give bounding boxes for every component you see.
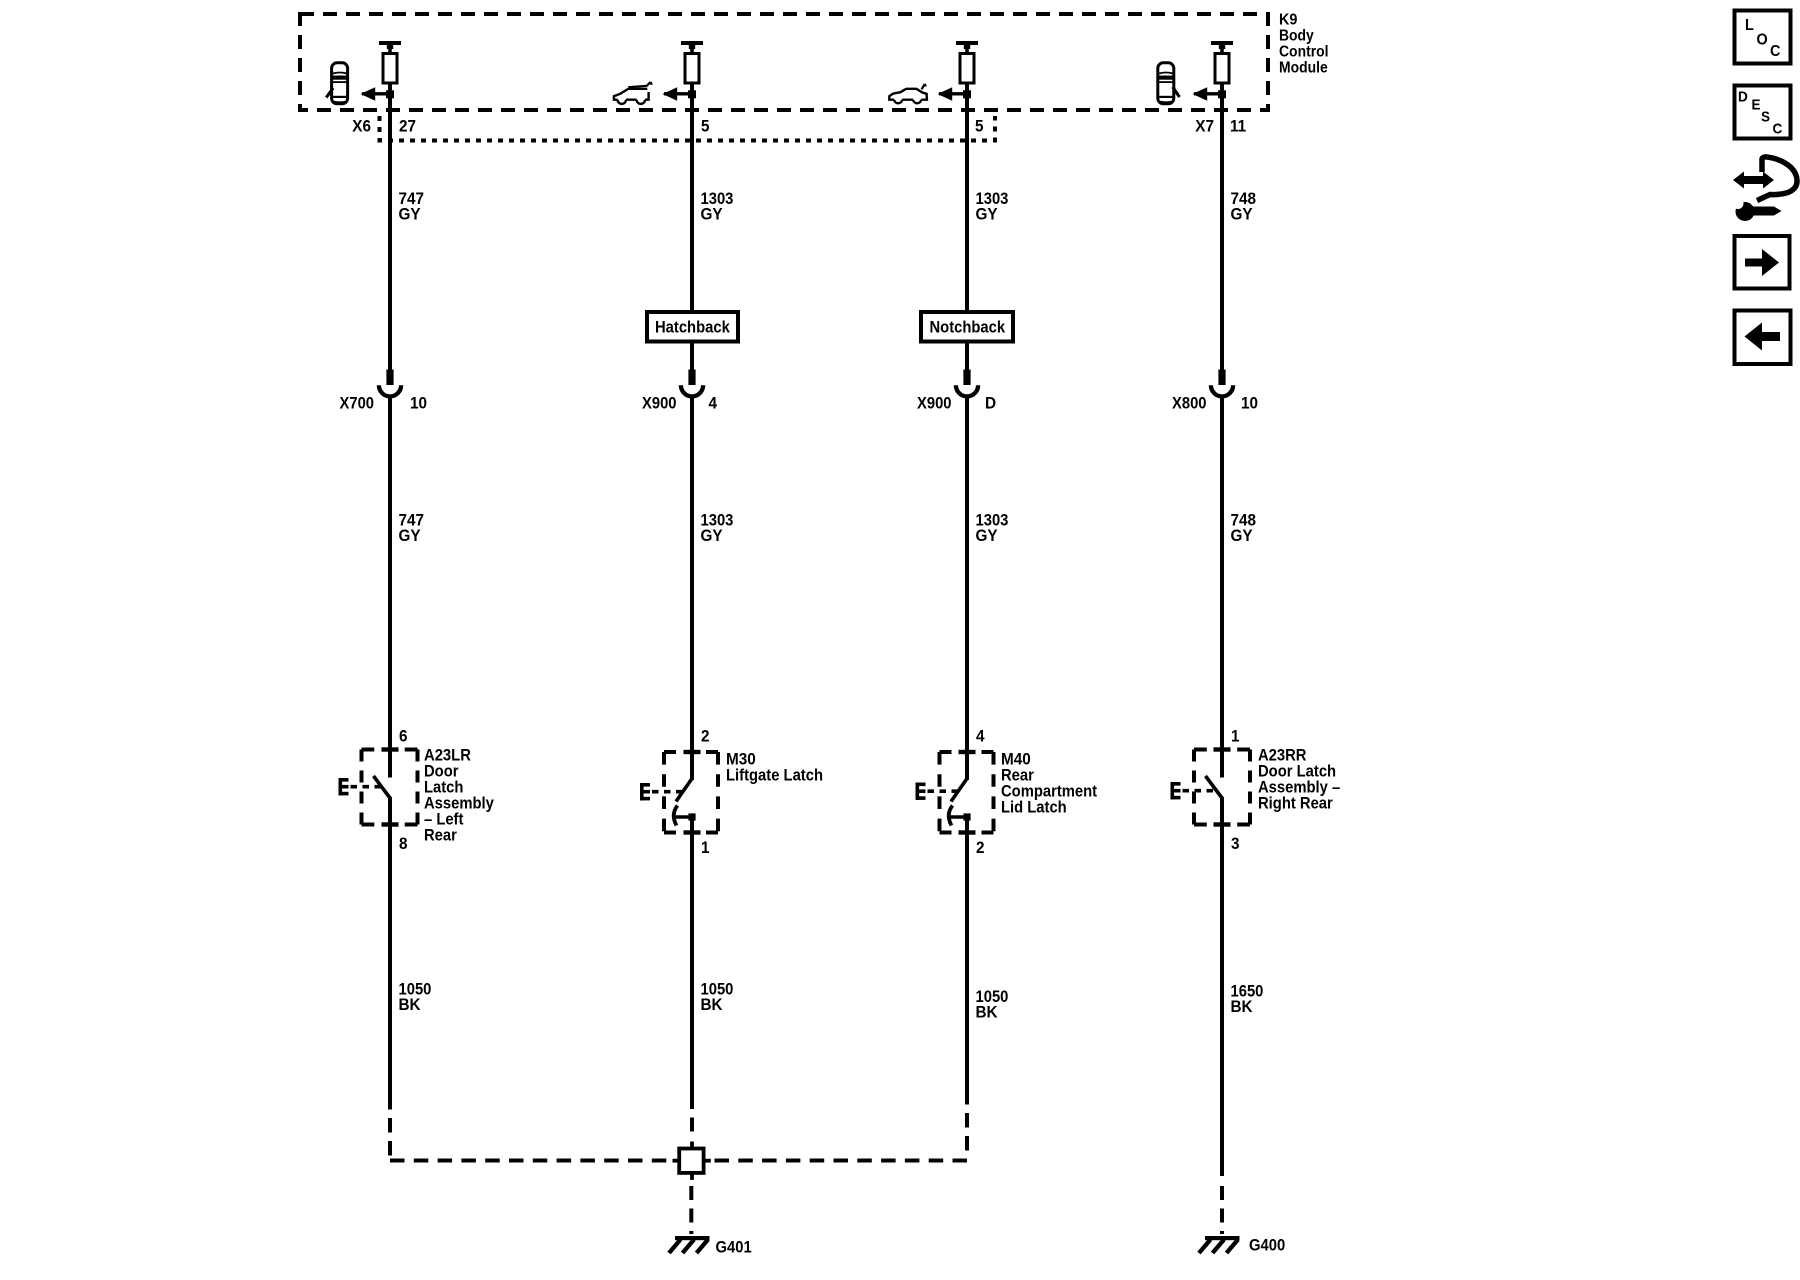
svg-text:3: 3 <box>1231 834 1240 853</box>
latch switch A23RR (blade) <box>1206 750 1223 825</box>
svg-text:BK: BK <box>976 1003 999 1022</box>
wire 1 from inline connector to latch <box>388 396 392 750</box>
latch name label M30 <box>726 750 823 785</box>
label K9 Body Control Module <box>1279 12 1329 77</box>
svg-text:GY: GY <box>1231 526 1254 545</box>
latch name label A23RR <box>1258 746 1340 813</box>
BCM connector label X7 pin 11 <box>1195 117 1246 136</box>
harness routing icon (double arrow, hook outline, wrench) <box>1733 157 1798 221</box>
wire 2 solid segment below latch <box>690 831 694 1095</box>
svg-text:X800: X800 <box>1172 394 1207 413</box>
latch switch A23LR (blade) <box>374 750 391 825</box>
svg-text:Liftgate Latch: Liftgate Latch <box>726 766 823 785</box>
svg-text:4: 4 <box>976 727 985 746</box>
driver 2 output arrow to icon <box>663 87 697 101</box>
svg-text:C: C <box>1773 121 1783 138</box>
latch M40 pin numbers 4/2 <box>976 727 985 858</box>
svg-text:X900: X900 <box>917 394 952 413</box>
inline connector labels X900 / D <box>917 394 996 413</box>
latch M30 pin numbers 2/1 <box>701 727 710 858</box>
latch name label A23LR <box>424 746 494 845</box>
inline connector labels X900 / 4 <box>642 394 717 413</box>
next-page arrow box <box>1735 236 1790 289</box>
svg-text:2: 2 <box>976 838 985 857</box>
ground label G401 <box>716 1238 752 1257</box>
ground symbol G401 <box>669 1236 710 1253</box>
svg-text:K9: K9 <box>1279 12 1297 29</box>
svg-text:L: L <box>1745 17 1754 34</box>
latch switch M30 (blade with latch hook) <box>674 752 696 833</box>
latch M40 pin ticks at box boundary <box>959 750 976 835</box>
svg-text:1: 1 <box>701 838 710 857</box>
wire 1 circuit label 747 GY (upper) <box>399 189 425 224</box>
wire 1 solid segment below latch <box>388 823 392 1095</box>
svg-text:X900: X900 <box>642 394 677 413</box>
svg-text:Body: Body <box>1279 28 1314 45</box>
svg-text:X7: X7 <box>1195 117 1214 136</box>
BCM output driver 1 (T-bar, coil box) <box>379 41 401 83</box>
svg-text:X6: X6 <box>352 117 371 136</box>
svg-text:GY: GY <box>399 526 422 545</box>
latch A23RR lever symbol (E) with linkage <box>1171 782 1215 799</box>
svg-text:GY: GY <box>701 526 724 545</box>
wire 1 circuit label 747 GY (lower) <box>399 511 425 546</box>
latch A23RR pin ticks at box boundary <box>1214 747 1231 826</box>
latch M30 pin ticks at box boundary <box>684 750 701 835</box>
latch M30 lever symbol (E) with linkage <box>640 783 684 800</box>
DESC info box <box>1735 86 1791 139</box>
wire 4 circuit label 748 GY (lower) <box>1231 511 1257 546</box>
wire 1 ground circuit label 1050 BK <box>399 980 432 1015</box>
svg-text:27: 27 <box>399 117 416 136</box>
BCM connector label X6 pin 27 <box>352 117 416 136</box>
BCM pin 5 label <box>975 117 984 136</box>
latch M30 dashed component box <box>664 752 718 833</box>
inline connector X900 pin D <box>956 370 978 397</box>
BCM output driver 2 (T-bar, coil box) <box>681 41 703 83</box>
notchback open trunk icon <box>889 84 927 103</box>
BCM K9 Body Control Module dashed box <box>300 14 1268 110</box>
BCM output driver 4 (T-bar, coil box) <box>1211 41 1233 83</box>
latch A23LR pin numbers 6/8 <box>399 727 408 854</box>
body style box Notchback <box>921 312 1013 342</box>
svg-text:GY: GY <box>976 205 999 224</box>
svg-text:6: 6 <box>399 727 408 746</box>
latch M40 dashed component box <box>940 752 994 833</box>
svg-text:GY: GY <box>399 205 422 224</box>
svg-text:5: 5 <box>975 117 984 136</box>
svg-text:10: 10 <box>1241 394 1258 413</box>
wire 3 ground circuit label 1050 BK <box>976 987 1009 1022</box>
svg-text:C: C <box>1770 43 1781 60</box>
wire 3 from body-style box to inline connector <box>965 342 969 374</box>
svg-text:BK: BK <box>399 995 422 1014</box>
svg-text:5: 5 <box>701 117 710 136</box>
svg-text:Lid Latch: Lid Latch <box>1001 798 1067 817</box>
svg-text:2: 2 <box>701 727 710 746</box>
svg-text:S: S <box>1761 109 1770 126</box>
svg-text:Notchback: Notchback <box>930 318 1006 337</box>
svg-text:GY: GY <box>1231 205 1254 224</box>
svg-text:E: E <box>1752 97 1761 114</box>
inline connector X900 pin 4 <box>681 370 703 397</box>
LOC info box <box>1735 11 1791 64</box>
svg-text:D: D <box>985 394 996 413</box>
wire 3 from driver to body-style box <box>965 83 969 312</box>
svg-text:O: O <box>1757 31 1768 48</box>
svg-text:10: 10 <box>410 394 427 413</box>
wire 2 from inline connector to latch <box>690 396 694 752</box>
car door icon (right rear, top view) <box>1158 63 1180 104</box>
hatchback open liftgate icon <box>614 82 652 104</box>
wire 3 circuit label 1303 GY (upper) <box>976 189 1009 224</box>
svg-text:11: 11 <box>1230 117 1246 136</box>
wire 2 dashed segment to splice <box>690 1095 694 1138</box>
latch A23LR pin ticks at box boundary <box>382 747 399 826</box>
svg-text:X700: X700 <box>340 394 375 413</box>
ground label G400 <box>1249 1236 1285 1255</box>
latch M40 lever symbol (E) with linkage <box>916 783 960 800</box>
latch A23RR dashed component box <box>1194 750 1250 825</box>
svg-text:G400: G400 <box>1249 1236 1285 1255</box>
inline connector X700 pin 10 <box>379 370 401 397</box>
BCM output driver 3 (T-bar, coil box) <box>956 41 978 83</box>
latch name label M40 <box>1001 750 1097 817</box>
latch switch M40 (blade with latch hook) <box>949 752 971 833</box>
car door icon (left rear, top view) <box>326 63 347 104</box>
svg-text:Module: Module <box>1279 60 1328 77</box>
wire 2 circuit label 1303 GY (upper) <box>701 189 734 224</box>
wire 4 circuit label 748 GY (upper) <box>1231 189 1257 224</box>
inline connector labels X700 / 10 <box>340 394 428 413</box>
wire 3 circuit label 1303 GY (lower) <box>976 511 1009 546</box>
wire 4 from driver to inline connector <box>1220 83 1224 373</box>
wire 2 from body-style box to inline connector <box>690 342 694 374</box>
svg-text:GY: GY <box>976 526 999 545</box>
wire 3 solid segment below latch <box>965 832 969 1091</box>
svg-text:Rear: Rear <box>424 826 457 845</box>
latch A23RR pin numbers 1/3 <box>1231 727 1240 854</box>
previous-page arrow box <box>1735 311 1791 365</box>
svg-text:1: 1 <box>1231 727 1240 746</box>
wire 2 circuit label 1303 GY (lower) <box>701 511 734 546</box>
connector X6 dotted boundary line <box>380 116 996 141</box>
svg-text:D: D <box>1738 88 1748 105</box>
svg-text:GY: GY <box>701 205 724 224</box>
driver 1 output arrow to icon <box>361 87 395 101</box>
dashed wire from splice to ground G401 <box>689 1186 693 1234</box>
wire 2 ground circuit label 1050 BK <box>701 980 734 1015</box>
ground symbol G400 <box>1199 1236 1240 1253</box>
wire 3 dashed segment to splice <box>965 1090 969 1159</box>
wire 3 from inline connector to latch <box>965 396 969 752</box>
wire 1 dashed segment to splice <box>388 1095 392 1159</box>
svg-text:BK: BK <box>1231 997 1254 1016</box>
svg-text:Hatchback: Hatchback <box>655 318 730 337</box>
wire 4 solid segment below latch <box>1220 823 1224 1176</box>
inline connector X800 pin 10 <box>1211 370 1233 397</box>
wire 4 ground circuit label 1650 BK <box>1231 982 1264 1017</box>
svg-text:BK: BK <box>701 995 724 1014</box>
svg-text:8: 8 <box>399 834 408 853</box>
svg-text:4: 4 <box>709 394 718 413</box>
svg-text:Right Rear: Right Rear <box>1258 794 1333 813</box>
wire 4 dashed segment to ground <box>1220 1186 1224 1234</box>
latch A23LR dashed component box <box>362 750 418 825</box>
BCM pin 5 label <box>701 117 710 136</box>
svg-text:Control: Control <box>1279 44 1329 61</box>
driver 4 output arrow to icon <box>1193 87 1227 101</box>
svg-text:G401: G401 <box>716 1238 752 1257</box>
wire 2 from driver to body-style box <box>690 83 694 312</box>
splice junction box <box>673 1142 711 1180</box>
body style box Hatchback <box>647 312 738 342</box>
wire 1 from driver to inline connector <box>388 83 392 373</box>
driver 3 output arrow to icon <box>938 87 972 101</box>
wire 4 from inline connector to latch <box>1220 396 1224 750</box>
latch A23LR lever symbol (E) with linkage <box>339 778 383 795</box>
inline connector labels X800 / 10 <box>1172 394 1258 413</box>
